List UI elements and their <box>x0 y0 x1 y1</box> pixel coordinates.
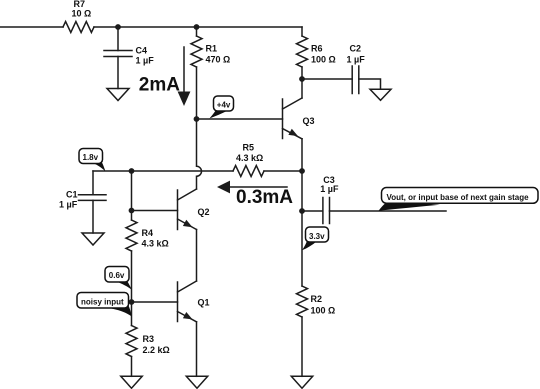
wire R4 column upper <box>131 171 133 220</box>
wire Q3 emitter column <box>301 139 303 286</box>
callout 3.3v node label <box>302 227 329 250</box>
callout noisy input <box>77 293 132 317</box>
wire Q3 base <box>197 118 283 120</box>
ground C1 <box>82 233 104 245</box>
resistor R3 <box>126 326 137 357</box>
arrow 2mA current <box>178 47 191 106</box>
callout +4v node label <box>210 96 234 119</box>
svg-text:4.3 kΩ: 4.3 kΩ <box>236 153 263 163</box>
label C4 value <box>136 46 155 66</box>
wire C2 right to ground <box>359 79 381 89</box>
resistor R4 <box>126 220 137 251</box>
svg-text:1 µF: 1 µF <box>347 55 366 65</box>
label C2 value <box>347 44 366 65</box>
wire R5 right to emitter column <box>264 170 302 172</box>
callout 0.6v node label <box>105 267 132 290</box>
callout Vout output label <box>379 188 539 211</box>
ground C2 <box>370 89 391 100</box>
node R6 C2 junction <box>299 76 305 82</box>
capacitor C2 <box>352 66 359 94</box>
node Q2 base junction <box>129 208 135 214</box>
wire top rail right <box>94 26 302 28</box>
node top C4 junction <box>115 24 121 30</box>
wire C4 top <box>117 27 119 51</box>
wire top rail left <box>0 26 63 28</box>
wire Q2 base <box>132 210 178 212</box>
wire R6 top <box>301 27 303 36</box>
label R6 value <box>311 44 336 65</box>
label C1 value <box>59 190 78 210</box>
wire 1.8v net horizontal <box>93 170 233 172</box>
svg-text:Q1: Q1 <box>198 298 210 308</box>
transistor Q1 <box>178 281 197 322</box>
svg-text:2.2 kΩ: 2.2 kΩ <box>143 345 170 355</box>
resistor R2 <box>297 286 308 317</box>
svg-text:Q3: Q3 <box>303 116 315 126</box>
node +4v junction <box>194 116 200 122</box>
node C3 junction <box>299 208 305 214</box>
ground C4 <box>107 89 129 101</box>
svg-text:noisy input: noisy input <box>81 298 124 307</box>
callout 1.8v node label <box>79 149 106 172</box>
wire Q1 base <box>132 301 178 303</box>
svg-text:R3: R3 <box>143 334 155 344</box>
svg-text:C4: C4 <box>136 46 148 56</box>
wire Q2 emitter to Q1 collector <box>196 230 198 282</box>
svg-text:100 Ω: 100 Ω <box>311 55 336 65</box>
resistor R6 <box>297 36 308 67</box>
svg-text:R2: R2 <box>311 294 323 304</box>
wire C4 bottom <box>117 57 119 89</box>
svg-text:100 Ω: 100 Ω <box>311 306 336 316</box>
label R1 value <box>206 44 231 65</box>
label R5 value <box>236 143 263 163</box>
svg-text:R1: R1 <box>206 44 218 54</box>
svg-text:R5: R5 <box>243 143 255 153</box>
svg-text:0.6v: 0.6v <box>109 271 125 280</box>
resistor R7 <box>63 22 94 33</box>
label R7 value <box>72 0 92 19</box>
svg-text:0.3mA: 0.3mA <box>236 187 293 208</box>
transistor Q3 <box>283 98 303 139</box>
wire C3 right output <box>330 210 447 212</box>
wire C1 top <box>92 171 94 195</box>
svg-text:1 µF: 1 µF <box>320 184 339 194</box>
svg-text:1 µF: 1 µF <box>59 200 78 210</box>
node Q1 base junction <box>129 299 135 305</box>
node top R1 junction <box>194 24 200 30</box>
ground R3 <box>121 376 142 388</box>
wire R2 bottom <box>301 317 303 376</box>
svg-text:10 Ω: 10 Ω <box>72 9 92 19</box>
ground R2 <box>291 376 312 388</box>
wire R6 bottom to Q3 collector <box>301 67 303 98</box>
wire C2 left <box>302 78 352 80</box>
svg-text:3.3v: 3.3v <box>309 232 325 241</box>
svg-text:Q2: Q2 <box>198 207 210 217</box>
label R4 value <box>142 228 169 249</box>
node Q3 emitter R5 junction <box>299 168 305 174</box>
svg-text:4.3 kΩ: 4.3 kΩ <box>142 239 169 249</box>
wire vertical with hop over 1.8v net <box>197 119 202 189</box>
svg-text:Vout, or input base of next ga: Vout, or input base of next gain stage <box>387 193 530 202</box>
label R3 value <box>143 334 170 355</box>
resistor R5 <box>233 166 264 177</box>
svg-text:1 µF: 1 µF <box>136 56 155 66</box>
wire R4 bottom to Q1 base node <box>131 251 133 326</box>
svg-text:+4v: +4v <box>217 100 231 109</box>
wire Q1 emitter down <box>196 322 198 377</box>
capacitor C4 <box>104 51 132 57</box>
node R4 column top junction <box>129 168 135 174</box>
label C3 value <box>320 175 339 194</box>
resistor R1 <box>191 36 202 67</box>
wire C1 bottom <box>92 200 94 233</box>
wire R3 bottom <box>131 357 133 377</box>
svg-text:470 Ω: 470 Ω <box>206 55 231 65</box>
svg-text:R4: R4 <box>142 228 154 238</box>
wire C3 left <box>302 210 323 212</box>
label R2 value <box>311 294 336 316</box>
capacitor C3 <box>323 198 330 224</box>
wire R1 top <box>196 27 198 36</box>
capacitor C1 <box>79 195 107 201</box>
svg-text:1.8v: 1.8v <box>83 153 99 162</box>
svg-text:2mA: 2mA <box>139 75 180 96</box>
svg-text:C2: C2 <box>350 44 362 54</box>
arrow 0.3mA current <box>217 181 287 194</box>
svg-text:C1: C1 <box>66 190 78 200</box>
wire R1 bottom <box>196 67 198 119</box>
svg-text:R6: R6 <box>311 44 323 54</box>
ground Q1 emitter <box>186 376 207 388</box>
transistor Q2 <box>178 189 197 230</box>
